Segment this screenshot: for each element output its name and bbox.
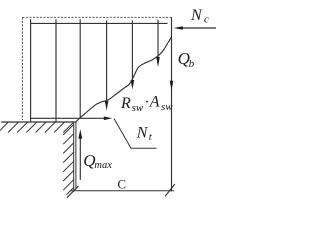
svg-text:max: max (94, 160, 112, 171)
stirrup force arrow S4 (105, 20, 109, 110)
support hatching (vertical band) (63, 125, 73, 195)
dimension tick left (67, 186, 79, 198)
svg-text:sw: sw (161, 101, 173, 113)
svg-text:c: c (204, 14, 209, 26)
shear force arrow Q_b head (170, 81, 174, 91)
label N_t (136, 124, 153, 142)
svg-text:R: R (120, 95, 131, 112)
stirrup line S1 (left solid edge) (30, 19, 32, 121)
svg-text:b: b (189, 58, 195, 70)
dimension tick right (165, 184, 175, 196)
dimension line c (71, 190, 175, 192)
compression force arrow N_c (174, 26, 216, 30)
stirrup line S2 (55, 19, 57, 121)
bottom chord line with tension force N_t arrow (30, 117, 112, 121)
dashed element outline left edge (21, 17, 23, 120)
stirrup force arrow S6 (156, 20, 160, 68)
support face line (inner) (75, 122, 77, 188)
stirrup force arrow S5 (131, 20, 135, 89)
support face line (outer) (73, 122, 75, 191)
stirrup line S3 (79, 19, 81, 118)
support reaction arrow Q_max (78, 129, 82, 180)
svg-text:sw: sw (132, 102, 144, 114)
svg-text:N: N (136, 124, 149, 141)
svg-text:N: N (190, 7, 203, 24)
inclined crack curve (75, 37, 171, 122)
dashed element outline top edge (22, 16, 171, 18)
label N_c (190, 7, 209, 26)
label Q_b (178, 49, 195, 70)
right edge of element / extension line (171, 17, 173, 191)
support surface line (1, 121, 76, 123)
svg-text:A: A (149, 93, 160, 110)
solid top chord line (30, 22, 167, 24)
label R_sw A_sw (120, 93, 173, 113)
svg-text:C: C (117, 176, 126, 191)
label Q_max (83, 151, 112, 171)
leader line for N_t (114, 119, 157, 149)
support hatching (horizontal band) (0, 122, 74, 133)
